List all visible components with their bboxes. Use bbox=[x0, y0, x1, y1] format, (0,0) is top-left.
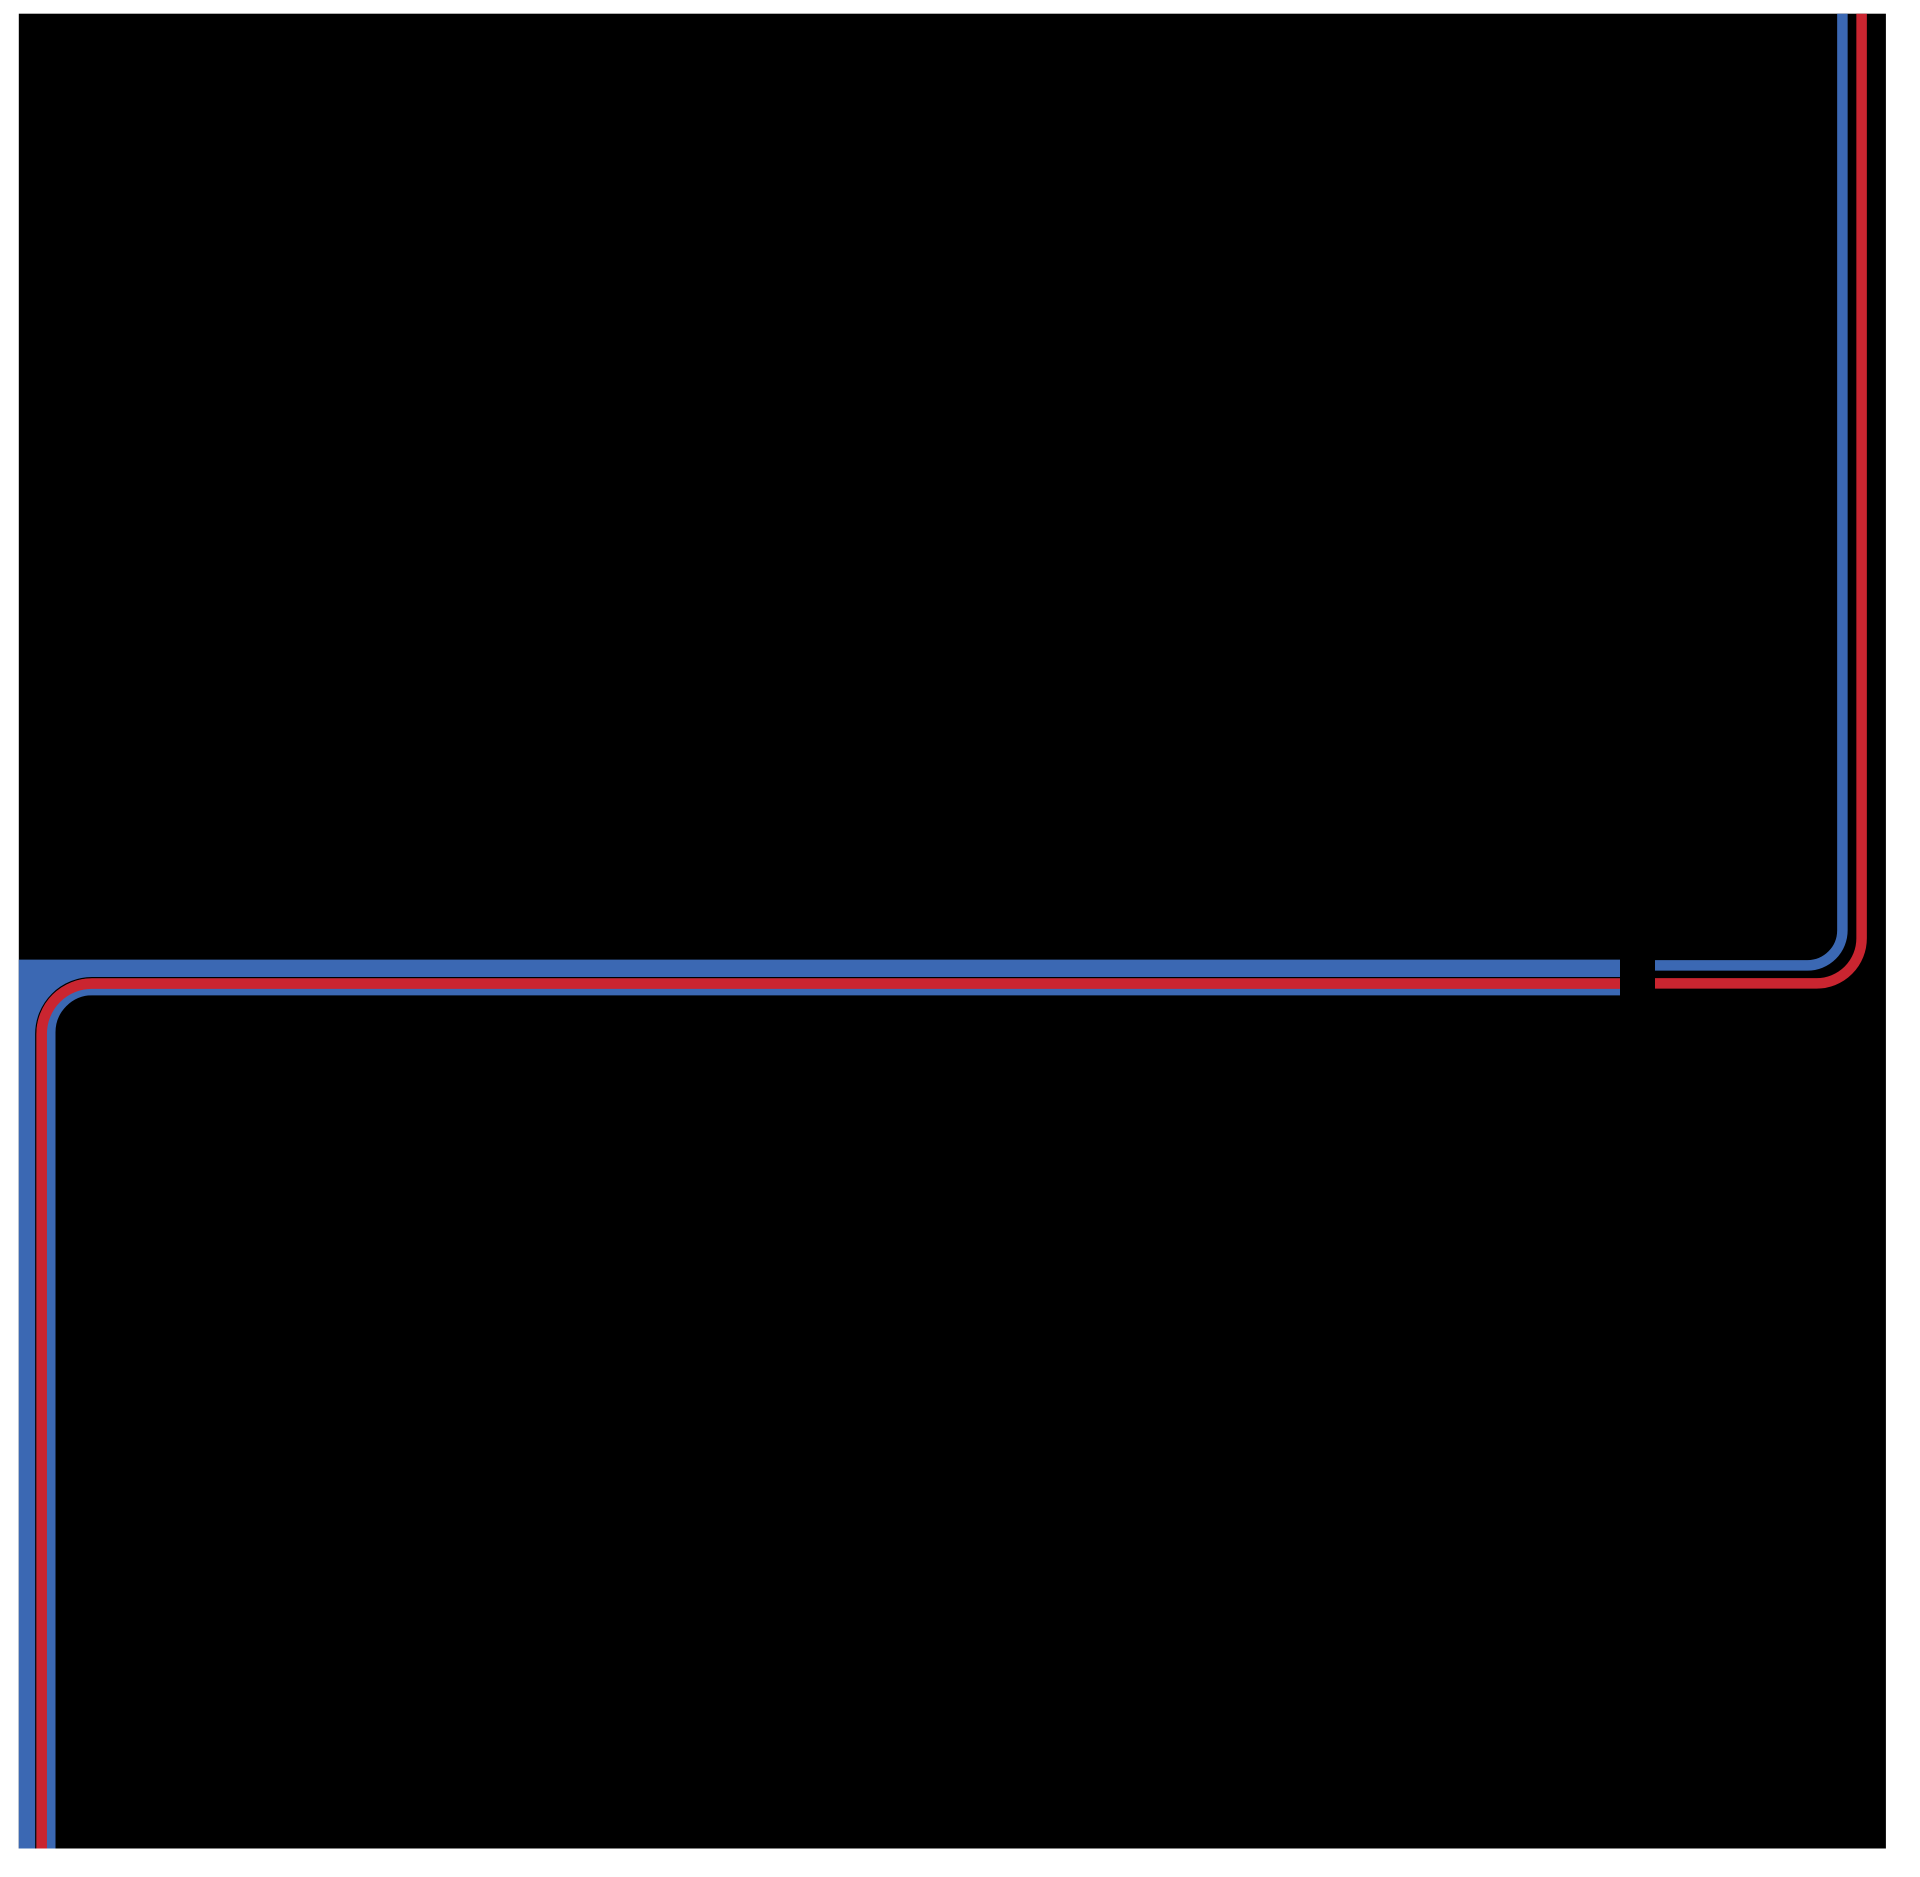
wire N3 (blue neutral, right route: horizontal + top-right vertical) bbox=[1655, 14, 1842, 966]
wire (black separator between blue and red, left route) bbox=[36, 978, 1620, 1849]
wire N2 (second blue conductor, partly under red, left route) bbox=[51, 990, 1621, 1848]
switch S1 (black on black, creates gap in wires) bbox=[1620, 945, 1655, 1005]
wire L (red live, left route) bbox=[42, 984, 1620, 1849]
wire N (blue neutral, thick left route: bottom-left vertical + long horizontal) bbox=[19, 960, 1620, 1849]
wire L2 (red live, right route: horizontal + top-right vertical) bbox=[1655, 14, 1862, 984]
